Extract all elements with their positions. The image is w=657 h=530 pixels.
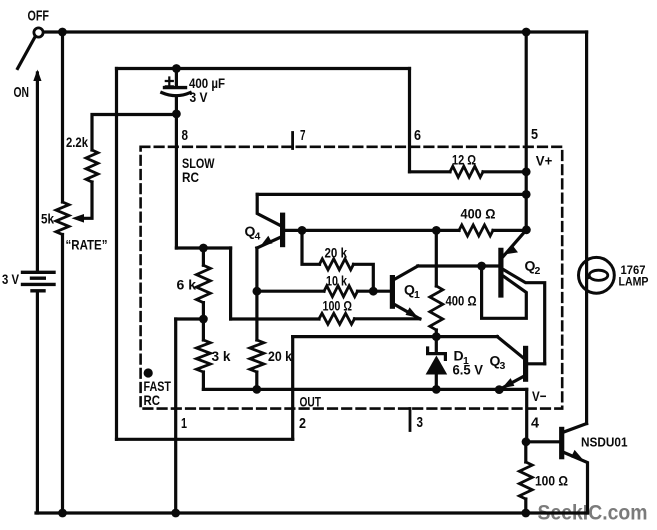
svg-text:2: 2 (299, 415, 306, 432)
resistor 100 ohm bottom (519, 462, 532, 499)
junction dot 12ohm right (522, 167, 531, 176)
resistor 6k (196, 265, 210, 302)
svg-text:4: 4 (255, 231, 261, 243)
wire battery bottom to ground rail (36, 292, 39, 514)
junction dot zener bottom (432, 385, 441, 394)
junction dot 6k top (199, 244, 208, 253)
svg-text:8: 8 (182, 127, 189, 144)
junction dot zener top (432, 332, 441, 341)
svg-text:5: 5 (531, 126, 538, 143)
junction dot Q4 collector rail (522, 190, 531, 199)
switch circle (34, 28, 43, 37)
wire OUT rail y=336.6 (293, 335, 498, 338)
switch blade OFF-ON (18, 36, 36, 69)
svg-text:3: 3 (500, 360, 506, 372)
Q1 emitter arrowhead (406, 307, 419, 318)
wire OUT loop bottom (117, 438, 293, 441)
transistor Q2 bar (498, 250, 503, 295)
junction dot Q2 emitter node (522, 225, 531, 234)
resistor 3k (196, 340, 210, 372)
lamp circle (579, 257, 615, 293)
Q4 emitter arrowhead (261, 236, 273, 246)
junction dot 10k left (253, 287, 262, 296)
NSDU01 collector (562, 424, 587, 433)
svg-text:OFF: OFF (28, 8, 50, 25)
svg-text:4: 4 (531, 415, 540, 432)
svg-text:1: 1 (181, 415, 187, 432)
transistor Q4 bar (280, 215, 285, 244)
wire 20k bottom lead (255, 372, 258, 389)
junction dot ground left (58, 509, 67, 518)
svg-text:20 k: 20 k (268, 348, 292, 364)
wire right rail to lamp and NSDU01 collector (585, 32, 588, 424)
potentiometer 5k (56, 202, 69, 235)
Q3 emitter (499, 375, 525, 389)
svg-text:2: 2 (535, 265, 541, 277)
capacitor polarity plus (166, 78, 173, 87)
zener D1 leads (435, 337, 438, 390)
pin 7 tick (291, 133, 294, 149)
junction dot top switch (58, 28, 67, 37)
ON arrowhead (33, 70, 41, 82)
svg-text:OUT: OUT (300, 394, 322, 410)
capacitor top plate (165, 86, 186, 89)
svg-text:400 Ω: 400 Ω (461, 206, 496, 222)
svg-text:“RATE”: “RATE” (66, 237, 108, 253)
wire Q4 emitter vertical x=256.9 (255, 248, 258, 340)
wire pin5 V+ vertical (525, 32, 528, 230)
wire 2.2k top to cap node (92, 115, 176, 151)
wire bottom rail (36, 511, 588, 514)
wire Q4 collector rail y=194.4 (257, 193, 526, 196)
wire pin4 drop (525, 389, 528, 441)
Q4 emitter (257, 236, 283, 248)
wire pin1 vertical (174, 319, 177, 513)
svg-text:3 V: 3 V (2, 271, 20, 287)
wire 6k leads (202, 248, 205, 319)
wire 10k leads / Q1 base (257, 290, 390, 293)
svg-text:6 k: 6 k (177, 277, 197, 293)
junction dot cap bottom (172, 110, 181, 119)
wire OUT pin2 drop (291, 337, 294, 440)
resistor 20k horizontal (320, 259, 354, 270)
svg-text:1: 1 (414, 289, 420, 301)
zener D1 cathode bar (428, 348, 446, 359)
lamp filament (589, 270, 608, 280)
wire left rail x=62.5 upper (61, 32, 64, 202)
NSDU01 emitter (562, 452, 588, 514)
svg-text:100 Ω: 100 Ω (535, 473, 568, 489)
svg-text:RC: RC (144, 392, 161, 408)
junction dot 20k drop (298, 226, 307, 235)
wire y=319 to 100 ohm (231, 317, 319, 320)
junction dot top pin5 (522, 28, 531, 37)
wire 3k leads (202, 319, 205, 389)
zener D1 triangle (426, 356, 448, 375)
wire 20k horizontal leads (302, 230, 373, 291)
pin 3 tick (409, 409, 412, 431)
wire x=230.6 drop (229, 248, 232, 319)
junction dot 6k bottom (199, 315, 208, 324)
svg-text:2.2k: 2.2k (66, 134, 88, 150)
NSDU01 emitter arrowhead (571, 450, 584, 460)
wire 2.2k bottom to pot wiper (84, 182, 92, 218)
junction dot cap top (172, 64, 181, 73)
junction dot Q1 base (369, 287, 378, 296)
resistor 100 ohm mid (319, 313, 355, 324)
wire pin8 node to 6k top (176, 246, 230, 249)
Q1 emitter (392, 303, 419, 319)
svg-text:5k: 5k (41, 211, 54, 227)
junction dot ground 100ohm (521, 509, 530, 518)
wire Q4 collector bend (257, 194, 281, 225)
wire Q4 base rail y=230.4 (284, 229, 526, 232)
svg-text:7: 7 (300, 127, 306, 144)
wire cap top rail y=68.5 (117, 67, 410, 70)
capacitor bottom plate (162, 93, 190, 96)
transistor Q1 bar (390, 278, 395, 307)
Q2 emitter arrowhead (506, 245, 519, 255)
resistor 12 ohm (450, 166, 483, 177)
junction dot Q3 emitter (495, 385, 504, 394)
junction dot Q2 base (477, 262, 486, 271)
svg-text:NSDU01: NSDU01 (581, 435, 628, 450)
svg-text:1: 1 (463, 355, 469, 367)
resistor 400 ohm vertical (430, 286, 443, 330)
svg-text:V+: V+ (536, 153, 553, 169)
resistor 10k (324, 286, 358, 297)
resistor 400 ohm top (459, 225, 493, 236)
svg-text:LAMP: LAMP (619, 277, 649, 289)
svg-text:3: 3 (417, 414, 424, 431)
wire 100 ohm bottom leads (524, 442, 527, 513)
wire 400 ohm vertical leads (435, 230, 438, 336)
wire ON arrow to battery (36, 73, 39, 271)
svg-text:6: 6 (414, 127, 421, 144)
svg-text:3 k: 3 k (212, 348, 231, 364)
Q3 emitter arrowhead (502, 378, 514, 388)
transistor NSDU01 bar (559, 429, 564, 456)
pot wiper arrowhead (72, 214, 85, 223)
Q1 collector (392, 266, 417, 281)
battery 3V plates (23, 272, 55, 291)
svg-text:20 k: 20 k (325, 245, 348, 261)
wire V- rail y=389.4 (203, 388, 526, 391)
svg-text:1767: 1767 (621, 265, 646, 277)
resistor 2.2k (86, 150, 98, 182)
Q3 base from OUT rail (497, 337, 524, 359)
junction dot 400v top (432, 226, 441, 235)
resistor 20k vertical (250, 340, 264, 372)
svg-text:400 Ω: 400 Ω (446, 293, 477, 309)
NSDU01 base wire (527, 440, 560, 443)
svg-text:3 V: 3 V (190, 89, 209, 105)
svg-text:100 Ω: 100 Ω (323, 298, 353, 314)
svg-text:RC: RC (182, 169, 199, 185)
wire pin1 horizontal (176, 317, 204, 320)
Q2 collector lower loop to base (482, 266, 527, 318)
wire pin6 vertical x=409.5 (408, 69, 411, 172)
wire Q3 collector (526, 362, 545, 365)
lamp filament tail (587, 277, 590, 279)
node FAST RC marker dot (144, 368, 153, 377)
wire 100 ohm right lead (355, 317, 420, 320)
junction dot ground pin1 (171, 509, 180, 518)
svg-text:12 Ω: 12 Ω (452, 152, 476, 168)
svg-text:10 k: 10 k (326, 273, 347, 289)
wire left rail x=62.5 lower (61, 235, 64, 514)
junction dot NSDU01 base (522, 437, 531, 446)
wire OUT loop left vertical x=115.7 (115, 69, 118, 440)
Q2 emitter (503, 230, 527, 257)
capacitor 400uF leads (175, 69, 178, 249)
wire 12 ohm leads (410, 170, 527, 173)
svg-text:ON: ON (14, 84, 30, 101)
wire Q1 collector to Q2 base (418, 264, 500, 267)
junction dot 20k bottom (252, 385, 261, 394)
wire top rail (43, 30, 587, 33)
svg-text:V−: V− (532, 388, 547, 404)
IC dashed box (141, 147, 563, 409)
transistor Q3 bar (523, 348, 528, 379)
Q2 collector upper to Q3 collector rail (503, 269, 545, 364)
